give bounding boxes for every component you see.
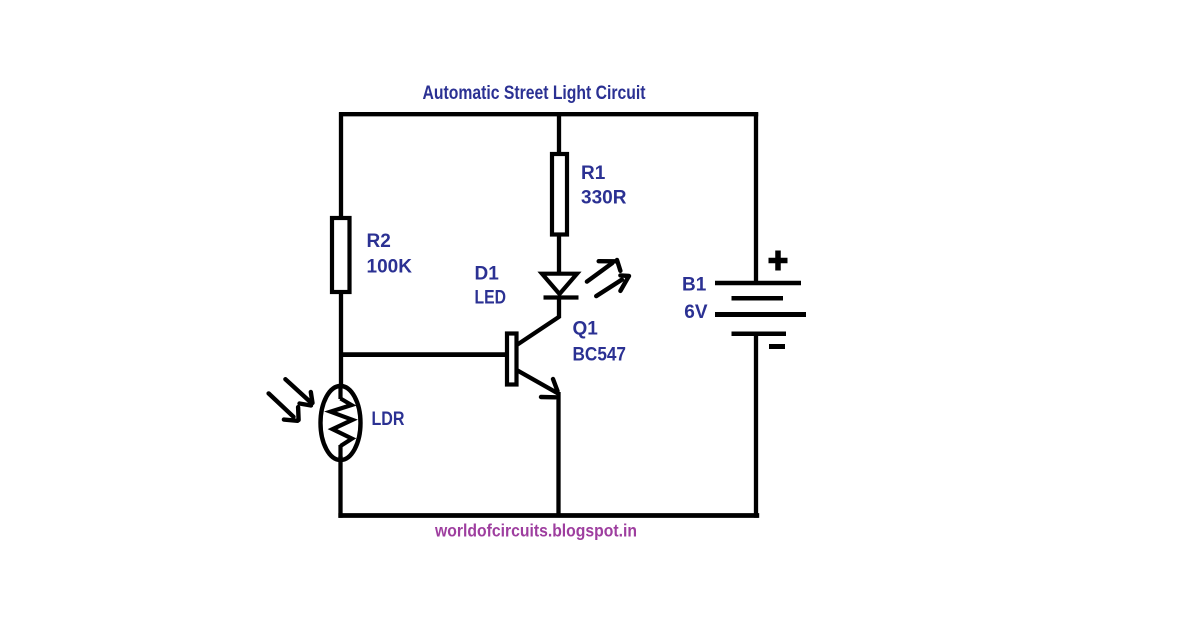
wire right rail lower [754,334,758,518]
LED emission arrow upper [587,260,621,282]
svg-text:worldofcircuits.blogspot.in: worldofcircuits.blogspot.in [434,521,637,541]
wire R1 top [557,112,561,156]
svg-text:LDR: LDR [372,409,405,430]
svg-text:Automatic Street Light Circuit: Automatic Street Light Circuit [423,83,647,104]
battery plus sign [769,251,788,271]
LDR light arrow lower [269,393,299,420]
svg-text:R2: R2 [367,231,391,252]
wire bottom rail [338,513,759,518]
wire emitter to bottom rail [556,392,560,517]
LED D1 [542,274,579,298]
svg-text:B1: B1 [682,274,707,295]
resistor R1 [552,154,567,235]
LDR light arrow upper [285,379,312,405]
svg-text:R1: R1 [581,163,606,184]
svg-text:BC547: BC547 [573,345,627,366]
svg-text:Q1: Q1 [573,319,599,340]
battery B1 [715,283,806,334]
battery minus sign [769,344,785,349]
wire top rail [339,112,758,116]
svg-text:330R: 330R [581,188,627,209]
transistor Q1 [507,317,560,398]
wire R1 to LED [557,233,561,273]
wire left rail mid segment [339,292,343,390]
wire left rail upper segment [339,112,343,220]
svg-text:100K: 100K [367,256,413,277]
resistor R2 [332,218,350,292]
svg-text:D1: D1 [475,263,500,284]
wire base rail [341,352,506,357]
wire LED to collector [557,296,561,318]
wire right rail upper [754,112,758,283]
svg-text:LED: LED [475,287,507,308]
LED emission arrow lower [596,275,629,296]
LDR [321,386,361,460]
wire left rail lower segment [338,456,342,518]
svg-text:6V: 6V [684,302,708,323]
